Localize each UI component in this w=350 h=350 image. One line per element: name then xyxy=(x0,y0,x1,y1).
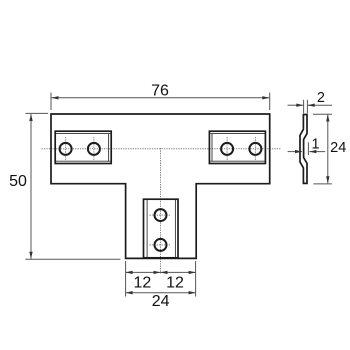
dimension 50 left xyxy=(9,113,120,259)
svg-text:24: 24 xyxy=(152,293,170,310)
svg-text:2: 2 xyxy=(317,90,325,106)
hole left plate 1 xyxy=(60,143,72,155)
dimension 24 bottom xyxy=(126,291,196,310)
dimension 2 side top xyxy=(288,90,333,113)
dimension 1 side offset xyxy=(288,136,326,155)
svg-text:50: 50 xyxy=(9,173,27,190)
wire vertical centerline through leg xyxy=(160,148,162,274)
hole middle plate 1 xyxy=(155,209,167,221)
svg-text:12: 12 xyxy=(166,275,184,292)
hole middle plate 2 xyxy=(155,239,167,251)
middle reinforcement plate xyxy=(144,199,179,258)
wire horizontal centerline through bar holes xyxy=(42,148,281,150)
hole right plate 2 xyxy=(249,143,261,155)
dimension 24 side right xyxy=(313,114,346,184)
dimension 76 top xyxy=(51,83,270,110)
dimension 12 12 bottom xyxy=(126,261,196,297)
T-plate outline xyxy=(51,114,270,258)
node hole tick marks (vertical) bar holes xyxy=(66,137,256,245)
svg-text:76: 76 xyxy=(151,83,169,100)
hole right plate 1 xyxy=(221,143,233,155)
svg-text:12: 12 xyxy=(134,275,152,292)
svg-text:24: 24 xyxy=(330,140,346,156)
right reinforcement plate xyxy=(209,131,265,163)
left reinforcement plate xyxy=(55,131,111,163)
hole left plate 2 xyxy=(88,143,100,155)
svg-text:1: 1 xyxy=(312,136,320,152)
side view profile xyxy=(300,115,307,184)
